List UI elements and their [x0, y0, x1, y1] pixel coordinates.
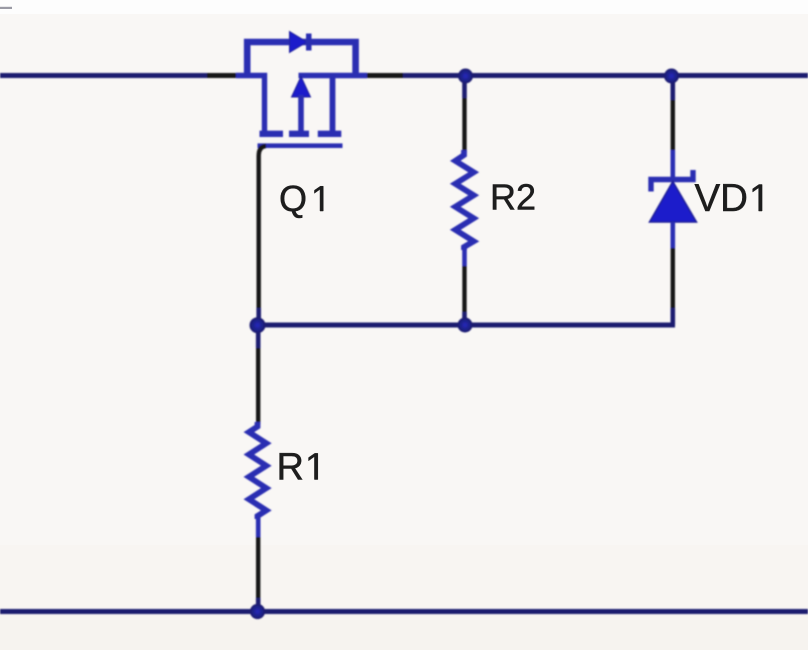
svg-text:VD: VD: [695, 177, 748, 220]
transistor Q1 : source pin + left channel stub: [236, 76, 265, 133]
zener diode VD1 : top lead blue: [670, 150, 675, 180]
resistor R1 : bottom lead black: [256, 537, 260, 598]
wire: bottom rail (navy): [0, 609, 808, 614]
transistor Q1 : right channel stub: [330, 76, 336, 133]
transistor Q1 : gate lead lower (navy): [256, 308, 261, 325]
wire: top rail black segment before Q1: [207, 73, 238, 78]
zener diode VD1 : anode triangle: [650, 182, 697, 223]
label VD1: [695, 177, 763, 220]
svg-text:R2: R2: [490, 177, 536, 218]
zener diode VD1 : bottom lead black: [671, 248, 675, 308]
node: bottom rail / R1 junction: [250, 604, 265, 619]
wire: middle rail (navy): [256, 323, 675, 328]
label R1: [277, 447, 318, 489]
transistor Q1 : drain pin horizontal: [299, 73, 368, 78]
stray tick top-left: [0, 7, 12, 9]
svg-text:R: R: [277, 447, 304, 489]
resistor R2 : bottom lead black: [462, 266, 466, 312]
node: top rail / R2 junction: [458, 69, 473, 84]
transistor Q1 : gate plate: [258, 143, 343, 148]
resistor R1 : top lead navy: [256, 325, 261, 348]
zener diode VD1 : bottom lead corner navy: [670, 308, 675, 325]
resistor R1 : zigzag: [249, 422, 266, 519]
node: top rail / VD1 junction: [664, 69, 679, 84]
zener diode VD1 : bottom lead blue: [670, 222, 675, 248]
wire: top rail black segment after Q1: [366, 73, 403, 78]
background band top white: [0, 0, 808, 14]
resistor R1 : bottom lead navy: [256, 598, 261, 612]
resistor R2 : top lead black: [462, 98, 466, 152]
transistor Q1 : body-diode bracket: [247, 42, 355, 76]
transistor Q1 : body diode cathode bar: [306, 34, 312, 51]
wire: top rail left (navy): [0, 73, 207, 78]
resistor R1 : bottom lead blue: [256, 516, 261, 537]
label Q1: [279, 178, 323, 219]
transistor Q1 : left channel segment: [260, 131, 284, 137]
transistor Q1 : substrate arrow shaft: [298, 95, 304, 132]
resistor R1 : top lead black: [256, 348, 260, 424]
background band lower: [0, 545, 808, 650]
resistor R2 : zigzag: [455, 150, 473, 250]
node: middle rail / R2 junction: [458, 318, 473, 333]
wire: top rail right (navy): [403, 73, 808, 78]
resistor R2 : top lead navy: [462, 76, 467, 99]
zener diode VD1 : cathode bar with wings: [651, 170, 693, 192]
transistor Q1 : middle channel segment: [289, 131, 309, 137]
zener diode VD1 : top lead black: [671, 100, 675, 150]
zener diode VD1 : top lead navy: [670, 76, 675, 101]
node: middle rail / gate junction: [250, 317, 266, 333]
transistor Q1 : right channel segment: [318, 131, 342, 137]
resistor R2 : bottom lead navy: [462, 312, 467, 325]
svg-text:Q: Q: [279, 178, 307, 219]
resistor R2 : bottom lead blue: [462, 247, 467, 266]
transistor Q1 : substrate arrow head: [292, 77, 311, 98]
transistor Q1 : body diode triangle: [290, 32, 308, 53]
transistor Q1 : gate lead (black): [259, 146, 266, 308]
